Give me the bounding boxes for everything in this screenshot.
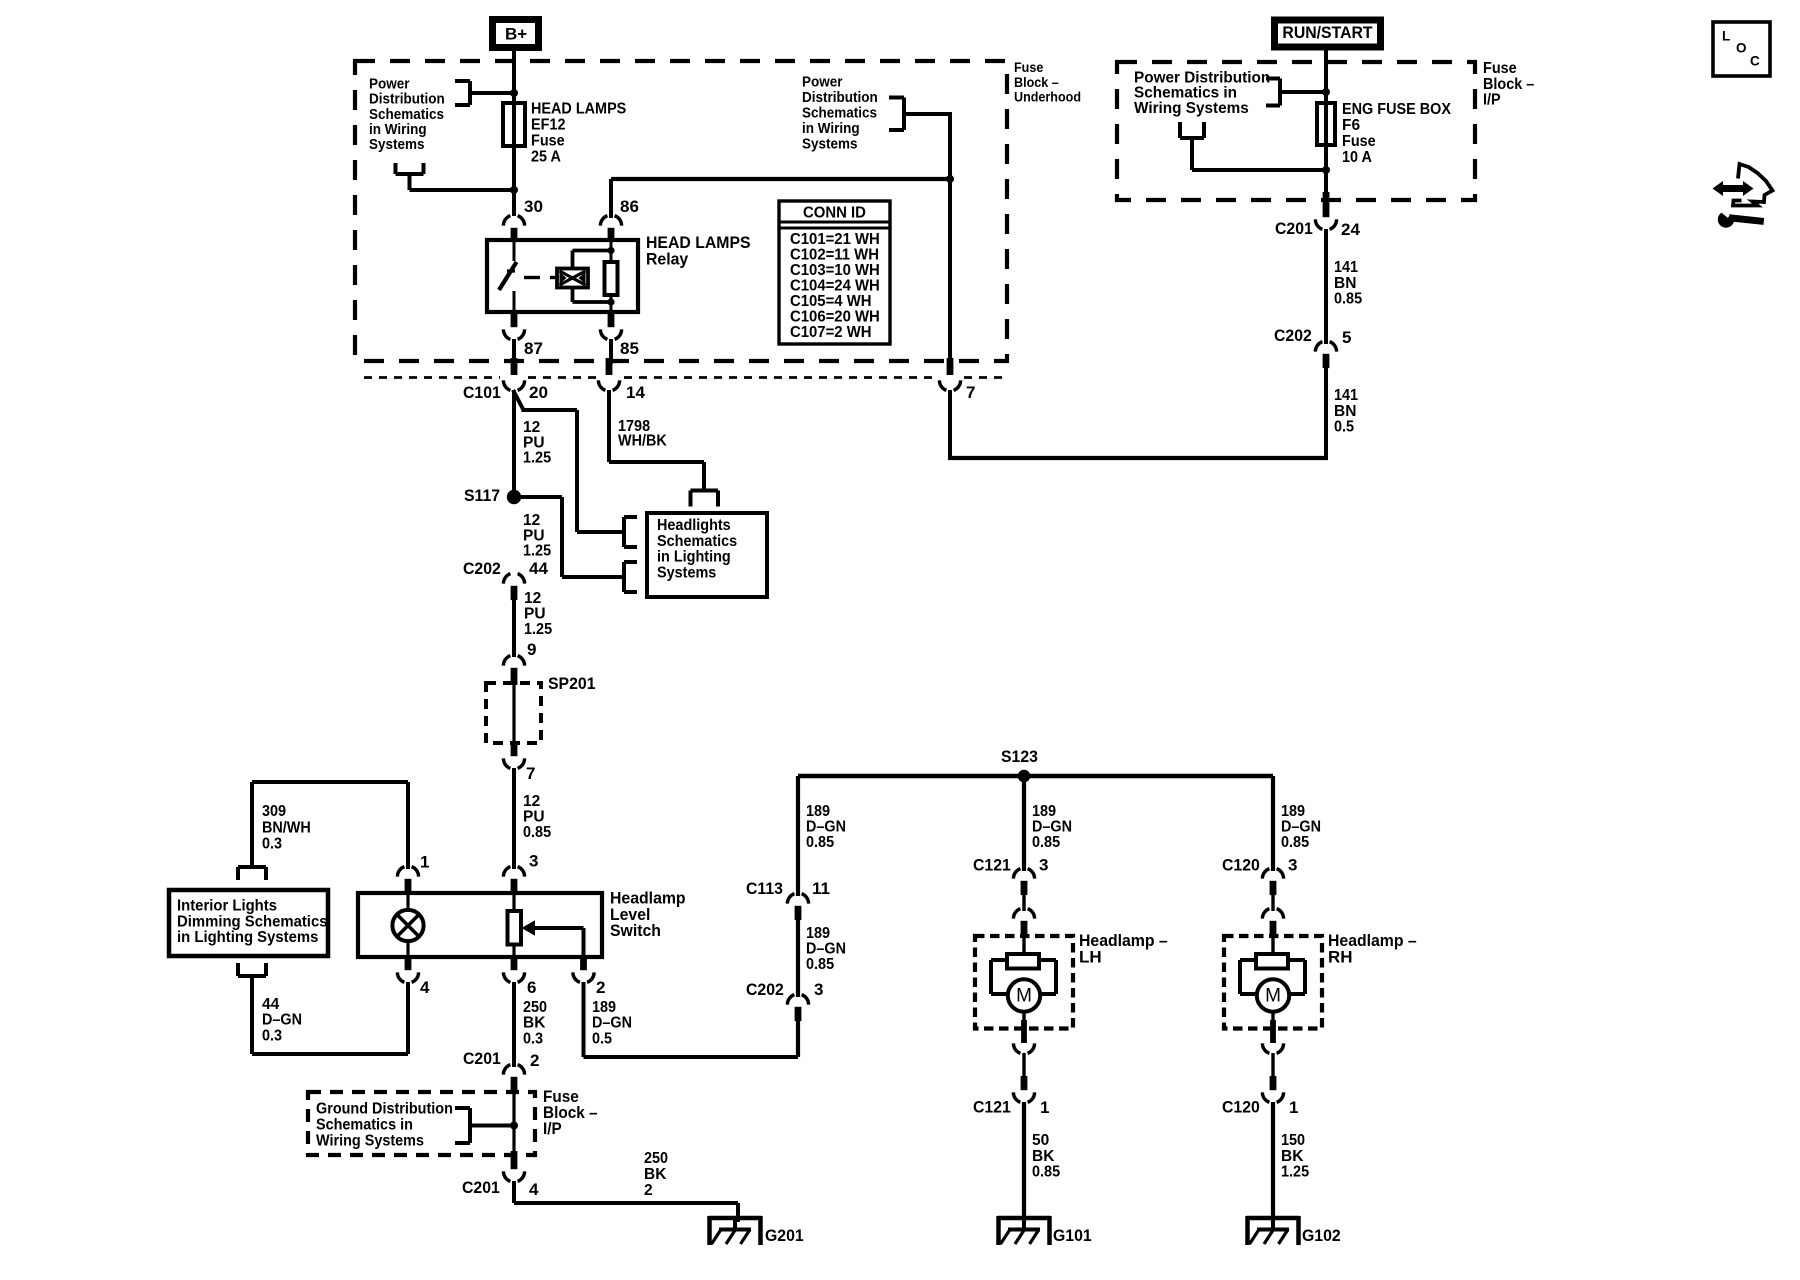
label HEAD LAMPS EF12 Fuse 25 A (531, 101, 626, 166)
svg-text:30: 30 (524, 197, 543, 216)
label Headlamp Level Switch (610, 889, 686, 940)
wire 12 PU 1.25 label 2 (523, 512, 551, 560)
connector C101 dashed line (364, 376, 1002, 379)
svg-text:0.3: 0.3 (262, 1027, 282, 1044)
svg-text:0.85: 0.85 (806, 956, 834, 973)
svg-text:250: 250 (644, 1150, 668, 1167)
wire 309 BN/WH to interior lights (252, 782, 408, 869)
ground G101 (998, 1216, 1092, 1245)
junction dot B+ tap (510, 89, 518, 97)
svg-text:10 A: 10 A (1342, 149, 1372, 166)
headlamp RH lower body connector (1262, 1012, 1283, 1054)
svg-text:C121: C121 (973, 856, 1011, 875)
svg-text:Schematics: Schematics (657, 533, 737, 550)
navigation icon double arrow (1713, 181, 1754, 196)
svg-text:Headlights: Headlights (657, 517, 731, 534)
svg-text:7: 7 (526, 764, 535, 783)
wire 141 BN 0.5 label (1334, 387, 1358, 436)
wire 250 BK 0.3 label (523, 999, 547, 1047)
svg-text:Block –: Block – (1014, 75, 1059, 90)
reference Power Distribution Schematics in Wiring Systems (left) (369, 76, 514, 153)
svg-text:in Lighting Systems: in Lighting Systems (177, 929, 318, 946)
headlamp LH resistor (1007, 938, 1039, 969)
svg-text:C121: C121 (973, 1098, 1011, 1117)
interior lights dimming box (169, 890, 328, 956)
switch wiper arrow (522, 920, 584, 955)
svg-text:C101=21 WH: C101=21 WH (790, 231, 880, 248)
svg-text:CONN ID: CONN ID (803, 205, 866, 222)
connector C201 pin 2 (463, 1049, 539, 1094)
svg-text:6: 6 (527, 978, 536, 997)
svg-text:0.5: 0.5 (1334, 419, 1354, 436)
headlights schematics box (647, 513, 767, 597)
svg-text:3: 3 (1039, 856, 1048, 875)
relay internal junction dots (607, 247, 614, 306)
svg-text:M: M (1265, 986, 1281, 1007)
svg-text:87: 87 (524, 339, 543, 358)
headlamp LH motor loop (991, 960, 1056, 994)
svg-text:C201: C201 (462, 1178, 500, 1197)
wire through SP201 (512, 684, 515, 744)
svg-text:I/P: I/P (543, 1120, 562, 1138)
wire 85 to C101-14 (609, 339, 613, 364)
wire 189 D-GN 0.85 label (left2) (806, 925, 846, 973)
svg-text:85: 85 (620, 339, 639, 358)
navigation icon wrench (1718, 206, 1764, 228)
svg-text:3: 3 (1288, 856, 1297, 875)
wire B+ to relay pin 30 (512, 47, 516, 216)
svg-text:3: 3 (814, 980, 823, 999)
wire branch pin20 to headlights ref (upper) (513, 390, 622, 532)
svg-text:44: 44 (262, 996, 280, 1013)
svg-text:LH: LH (1079, 947, 1102, 966)
svg-text:M: M (1016, 986, 1032, 1007)
svg-text:PU: PU (524, 606, 546, 623)
svg-text:EF12: EF12 (531, 117, 566, 134)
switch lamp symbol (392, 895, 423, 955)
headlamp LH body connector (1013, 886, 1034, 938)
label Fuse Block - Underhood (1014, 60, 1081, 104)
bracket below interior lights box (238, 963, 266, 976)
bracket headlights lower-left (624, 562, 637, 592)
connector C202 pin 5 (1274, 326, 1351, 368)
svg-text:20: 20 (529, 383, 548, 402)
svg-text:1: 1 (1040, 1098, 1049, 1117)
svg-text:189: 189 (592, 999, 616, 1016)
connector C201 pin 24 (1275, 192, 1360, 239)
wire pin6 to C201-2 (512, 982, 516, 1067)
svg-text:in Wiring: in Wiring (369, 122, 427, 138)
svg-text:0.85: 0.85 (1032, 834, 1060, 851)
svg-text:Fuse: Fuse (1014, 60, 1044, 75)
relay coil (557, 251, 611, 303)
ground G201 (709, 1216, 804, 1245)
svg-text:Ground Distribution: Ground Distribution (316, 1101, 453, 1118)
wire fuse F6 down (1324, 145, 1328, 198)
svg-text:3: 3 (529, 852, 538, 871)
svg-text:SP201: SP201 (548, 674, 596, 693)
relay HEAD LAMPS box (487, 240, 638, 312)
svg-text:C202: C202 (746, 980, 784, 999)
wire 12 PU 0.85 label (523, 793, 551, 841)
wire 189 D-GN 0.85 label (LH) (1032, 803, 1072, 851)
svg-text:D–GN: D–GN (592, 1015, 632, 1032)
wire C202-44 to SP201 (512, 592, 516, 657)
svg-text:2: 2 (596, 978, 605, 997)
svg-text:44: 44 (529, 559, 548, 578)
headlamp RH dashed box (1224, 931, 1417, 1028)
svg-text:C120: C120 (1222, 1098, 1260, 1117)
wire 1798 WH/BK label (618, 418, 668, 450)
wire C101-20 to S117 (512, 390, 516, 498)
svg-text:O: O (1736, 41, 1747, 56)
wire 189 D-GN 0.85 label (RH) (1281, 803, 1321, 851)
wire 87 to C101-20 (512, 339, 516, 364)
svg-text:C202: C202 (1274, 326, 1312, 345)
headlamp LH dashed box (975, 931, 1168, 1028)
svg-text:4: 4 (420, 978, 430, 997)
label HEAD LAMPS Relay (646, 233, 751, 269)
headlamp LH lower body connector (1013, 1012, 1034, 1054)
svg-text:0.85: 0.85 (523, 824, 551, 841)
svg-text:Schematics: Schematics (369, 107, 444, 123)
wire 250 BK 2 to G201 (514, 1181, 738, 1222)
svg-text:Fuse: Fuse (1342, 133, 1376, 150)
switch pin 1 connector (397, 853, 429, 895)
svg-text:4: 4 (529, 1180, 539, 1199)
wire 12 PU 1.25 label 3 (524, 590, 552, 638)
svg-text:Systems: Systems (657, 565, 716, 582)
S117 splice (464, 486, 521, 505)
svg-text:C103=10 WH: C103=10 WH (790, 262, 880, 279)
svg-text:BN: BN (1334, 275, 1356, 292)
wire C101-14 to headlights ref (609, 390, 704, 492)
svg-text:141: 141 (1334, 387, 1358, 404)
headlamp LH motor M (1008, 979, 1040, 1011)
wire C201-24 to C202-5 (1324, 229, 1328, 344)
svg-text:G102: G102 (1302, 1226, 1341, 1245)
svg-text:HEAD LAMPS: HEAD LAMPS (531, 101, 626, 118)
junction dot run/start tap (1322, 88, 1330, 96)
svg-text:C201: C201 (1275, 219, 1313, 238)
relay pin 86 connector (600, 197, 639, 242)
svg-text:1.25: 1.25 (523, 543, 551, 560)
wire through IP fuse block (510, 1094, 518, 1152)
svg-text:Power: Power (802, 74, 843, 90)
fuse block underhood dashed box (355, 61, 1007, 361)
switch pin 6 connector (503, 955, 536, 997)
svg-text:C113: C113 (746, 879, 783, 898)
svg-text:S123: S123 (1001, 747, 1038, 766)
svg-text:309: 309 (262, 803, 286, 820)
svg-text:C106=20 WH: C106=20 WH (790, 309, 880, 326)
svg-text:0.5: 0.5 (592, 1030, 612, 1047)
wire 189 D-GN 0.85 label (left) (806, 803, 846, 851)
svg-text:F6: F6 (1342, 117, 1360, 134)
wire 150 BK to G102 (1271, 1102, 1275, 1222)
bracket headlights upper-left (624, 517, 637, 547)
svg-text:C107=2 WH: C107=2 WH (790, 324, 872, 341)
svg-text:150: 150 (1281, 1132, 1305, 1149)
relay pin 85 connector (600, 310, 639, 358)
connector C101 pin 20 (463, 358, 548, 402)
reference Power Distribution Schematics (run/start) (1134, 69, 1326, 117)
wire 44 D-GN to switch pin 4 (252, 976, 408, 1054)
svg-text:BN: BN (1334, 403, 1356, 420)
svg-text:Schematics in: Schematics in (316, 1117, 413, 1134)
headlamp level switch box (358, 893, 602, 957)
svg-text:RUN/START: RUN/START (1282, 23, 1373, 42)
switch potentiometer (508, 895, 522, 955)
svg-text:BK: BK (644, 1166, 667, 1183)
svg-text:BK: BK (1281, 1148, 1304, 1165)
svg-text:Distribution: Distribution (802, 90, 878, 106)
connector C121 pin 1 (973, 1053, 1049, 1117)
svg-text:B+: B+ (505, 25, 527, 44)
svg-text:0.3: 0.3 (523, 1030, 543, 1047)
svg-text:24: 24 (1341, 220, 1360, 239)
svg-text:Block –: Block – (1483, 76, 1535, 93)
svg-text:5: 5 (1342, 328, 1351, 347)
wire S117 branch to headlights ref (lower) (514, 497, 622, 577)
connector C101 pin 14 (598, 358, 645, 402)
wire S123 branch to C120-3 (1271, 776, 1275, 871)
svg-text:ENG FUSE BOX: ENG FUSE BOX (1342, 101, 1452, 118)
switch pin 3 connector (503, 852, 538, 895)
svg-text:50: 50 (1032, 1132, 1049, 1149)
svg-text:WH/BK: WH/BK (618, 433, 668, 450)
headlamp RH motor loop (1240, 960, 1305, 994)
splice pack SP201 pin 9 (503, 640, 536, 685)
ground G102 (1247, 1216, 1341, 1245)
fuse F6 (1317, 103, 1335, 145)
wire 309 BN/WH 0.3 label (262, 803, 311, 852)
wire 189 D-GN 0.5 label (592, 999, 632, 1047)
svg-text:250: 250 (523, 999, 547, 1016)
svg-text:12: 12 (524, 590, 541, 607)
wire C113 to C202-3 (796, 912, 800, 997)
svg-text:Schematics: Schematics (802, 105, 877, 121)
svg-text:14: 14 (626, 383, 645, 402)
wire RUN/START to fuse F6 (1324, 47, 1328, 105)
svg-text:C105=4 WH: C105=4 WH (790, 293, 872, 310)
wire 141 BN 0.85 label (1334, 259, 1362, 308)
connector C202 pin 44 (463, 559, 548, 600)
switch pin 4 connector (397, 955, 430, 997)
switch pin 2 connector (573, 955, 606, 997)
wire C202-5 to C101-7 (948, 360, 1328, 460)
wire 12 PU 1.25 label (523, 419, 551, 467)
svg-text:Distribution: Distribution (369, 92, 445, 108)
relay switch contact 30-87 (499, 242, 517, 310)
svg-text:9: 9 (527, 640, 536, 659)
svg-text:C101: C101 (463, 383, 501, 402)
reference tap below run/start power text (1180, 122, 1330, 174)
svg-text:0.85: 0.85 (1281, 834, 1309, 851)
fuse EF12 (503, 103, 525, 146)
wire SP201 to switch pin 3 (512, 768, 516, 869)
wire pin2 to C202-3 (584, 982, 799, 1057)
svg-text:2: 2 (644, 1182, 653, 1199)
connector C120 pin 1 (1222, 1053, 1298, 1117)
svg-text:C: C (1750, 54, 1760, 69)
svg-text:1.25: 1.25 (523, 450, 551, 467)
svg-text:Systems: Systems (802, 136, 858, 152)
svg-text:Underhood: Underhood (1014, 90, 1081, 105)
svg-text:C104=24 WH: C104=24 WH (790, 278, 880, 295)
svg-text:C102=11 WH: C102=11 WH (790, 247, 879, 264)
svg-text:I/P: I/P (1483, 92, 1501, 109)
svg-text:C120: C120 (1222, 856, 1260, 875)
power label RUN/START (1275, 20, 1381, 47)
splice S123 (798, 747, 1273, 782)
relay armature dashed link (524, 276, 557, 279)
wire right feed down to C101-7 (946, 112, 954, 364)
svg-text:in Wiring: in Wiring (802, 121, 860, 137)
LOC legend box (1713, 22, 1770, 76)
wire 50 BK to G101 (1022, 1102, 1026, 1222)
fuse block IP dashed box (top) (1117, 62, 1475, 200)
svg-text:RH: RH (1328, 947, 1353, 966)
wire 50 BK 0.85 label (1032, 1132, 1060, 1181)
reference Ground Distribution Schematics (316, 1101, 514, 1150)
svg-text:7: 7 (966, 383, 975, 402)
wire S123 branch to C121-3 (1022, 776, 1026, 871)
wire 250 BK 2 label (644, 1150, 668, 1199)
svg-text:Relay: Relay (646, 250, 689, 269)
CONN ID table (779, 201, 890, 344)
reference tap below fuse (396, 163, 519, 194)
relay coil suppression resistor (605, 242, 618, 310)
svg-text:11: 11 (812, 879, 830, 898)
wire C202-3 to switch pin 2 (796, 1013, 800, 1057)
wire pin86 feed from right (611, 179, 950, 218)
connector C101 pin 7 (939, 358, 975, 402)
svg-text:1: 1 (420, 853, 429, 872)
svg-text:0.85: 0.85 (1334, 291, 1362, 308)
SP201 pin 7 connector (503, 741, 535, 783)
svg-text:G101: G101 (1053, 1226, 1092, 1245)
svg-text:Wiring Systems: Wiring Systems (316, 1133, 424, 1150)
svg-text:12: 12 (523, 793, 540, 810)
svg-text:Wiring Systems: Wiring Systems (1134, 100, 1249, 117)
navigation icon outline arrow (1733, 164, 1773, 206)
svg-text:D–GN: D–GN (262, 1012, 302, 1029)
svg-text:PU: PU (523, 809, 545, 826)
svg-text:Fuse: Fuse (1483, 60, 1517, 77)
connector C120 pin 3 (1222, 856, 1297, 895)
svg-text:1.25: 1.25 (1281, 1164, 1309, 1181)
svg-text:0.3: 0.3 (262, 836, 282, 853)
svg-text:L: L (1722, 29, 1730, 44)
svg-text:0.85: 0.85 (1032, 1164, 1060, 1181)
bracket into headlights box top (691, 491, 719, 507)
svg-text:25 A: 25 A (531, 148, 561, 165)
svg-text:Switch: Switch (610, 921, 661, 940)
svg-text:G201: G201 (765, 1226, 804, 1245)
svg-text:Dimming Schematics: Dimming Schematics (177, 913, 328, 930)
connector C201 pin 4 (462, 1151, 539, 1199)
svg-text:BK: BK (523, 1015, 546, 1032)
svg-text:Interior Lights: Interior Lights (177, 898, 277, 915)
svg-text:2: 2 (530, 1051, 539, 1070)
label Fuse Block - I/P (bottom) (543, 1088, 598, 1138)
headlamp RH resistor (1256, 938, 1288, 969)
svg-text:1: 1 (1289, 1098, 1298, 1117)
headlamp RH motor M (1257, 979, 1289, 1011)
svg-text:in Lighting: in Lighting (657, 549, 731, 566)
connector C121 pin 3 (973, 856, 1048, 895)
bracket into interior lights box (238, 867, 266, 880)
svg-text:S117: S117 (464, 486, 500, 505)
svg-text:0.85: 0.85 (806, 834, 834, 851)
svg-text:BK: BK (1032, 1148, 1055, 1165)
connector C202 pin 3 (746, 980, 823, 1021)
headlamp RH body connector (1262, 886, 1283, 938)
relay pin 87 connector (503, 310, 543, 358)
svg-text:1.25: 1.25 (524, 621, 552, 638)
svg-text:BN/WH: BN/WH (262, 819, 311, 836)
reference Power Distribution Schematics (right) (802, 74, 950, 152)
svg-text:C201: C201 (463, 1049, 501, 1068)
svg-text:Fuse: Fuse (531, 132, 565, 149)
splice pack SP201 box (486, 674, 596, 743)
label ENG FUSE BOX F6 Fuse 10 A (1342, 101, 1452, 166)
relay pin 30 connector (503, 197, 543, 242)
fuse block IP dashed box (308, 1092, 535, 1155)
label Fuse Block - I/P (top) (1483, 60, 1535, 109)
svg-text:C202: C202 (463, 559, 501, 578)
svg-text:141: 141 (1334, 259, 1358, 276)
svg-text:86: 86 (620, 197, 639, 216)
power label B+ (493, 20, 539, 48)
wire 150 BK 1.25 label (1281, 1132, 1309, 1181)
wire S123 left branch down (796, 776, 800, 896)
svg-text:Power: Power (369, 76, 410, 92)
wire 44 D-GN 0.3 label (262, 996, 302, 1044)
svg-text:Systems: Systems (369, 137, 425, 153)
connector C113 pin 11 (746, 879, 830, 920)
